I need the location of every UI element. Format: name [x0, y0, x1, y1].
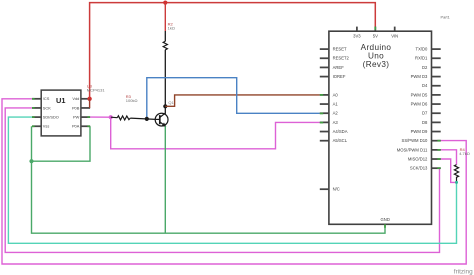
svg-text:TX/D0: TX/D0: [416, 47, 429, 52]
svg-text:MOSI/PWM D11: MOSI/PWM D11: [397, 147, 428, 152]
wire R2 to collector node: [164, 50, 166, 114]
svg-text:IOREF: IOREF: [333, 74, 346, 79]
svg-text:P0A: P0A: [72, 124, 80, 129]
wire end mark at PW: [87, 116, 90, 118]
wire emitter to GND rail: [164, 126, 166, 233]
wire end mark at 5V: [374, 27, 376, 30]
pin MISO/D12: [432, 158, 441, 160]
wire CS to D10: [2, 99, 466, 264]
svg-text:Q1: Q1: [168, 100, 174, 105]
pin Vss: [32, 125, 41, 127]
svg-text:GND: GND: [381, 217, 390, 222]
pin D8: [432, 121, 441, 123]
pin RESET2: [320, 57, 329, 59]
pin 5V: [374, 27, 376, 32]
svg-text:fritzing: fritzing: [454, 269, 473, 275]
junction dot Vdd: [87, 97, 91, 101]
svg-text:MCP4131: MCP4131: [87, 87, 106, 92]
svg-text:D8: D8: [422, 120, 428, 125]
svg-text:A1: A1: [333, 102, 339, 107]
svg-text:5V: 5V: [373, 34, 378, 39]
pin A5/SCL: [320, 140, 329, 142]
wire end mark at A2: [320, 112, 323, 114]
pin AREF: [320, 66, 329, 68]
svg-text:RESET: RESET: [333, 47, 347, 52]
svg-text:AREF: AREF: [333, 65, 345, 70]
svg-text:Part1: Part1: [441, 14, 450, 19]
wire blue base node to A2: [147, 78, 320, 119]
wire end mark at Vss: [32, 125, 35, 127]
pin !CS: [32, 98, 41, 100]
svg-text:D7: D7: [422, 111, 428, 116]
wire end mark at A0: [320, 94, 323, 96]
wire +5V red rail: [90, 3, 376, 99]
svg-text:A0: A0: [333, 92, 339, 97]
wire R2 top lead: [164, 31, 166, 41]
resistor R3: [117, 116, 130, 120]
wire end mark at !CS: [32, 98, 35, 100]
pin SCK/D13: [432, 167, 441, 169]
wire R3 to base: [130, 118, 155, 119]
pin TX/D0: [432, 48, 441, 50]
wire end mark at A3: [320, 122, 323, 124]
svg-text:VIN: VIN: [391, 34, 398, 39]
wire P0A branch: [32, 126, 91, 161]
svg-text:RESET2: RESET2: [333, 56, 350, 61]
svg-text:PW: PW: [73, 115, 80, 120]
pin A0: [320, 94, 329, 96]
wire end mark at GND: [384, 224, 386, 228]
pin A3: [320, 121, 329, 123]
pin D2: [432, 66, 441, 68]
svg-text:A3: A3: [333, 120, 339, 125]
junction dot rail to R2 branch: [163, 1, 167, 5]
wire SDI/SDO cyan to R4 node: [8, 117, 456, 243]
pin IOREF: [320, 76, 329, 78]
pin SS/PWM D10: [432, 140, 441, 142]
wire Vss P0A GND rail: [32, 126, 386, 233]
svg-text:!CS: !CS: [43, 96, 50, 101]
pin P0A: [81, 125, 90, 127]
svg-text:4.7kΩ: 4.7kΩ: [459, 151, 470, 156]
svg-text:PWM D5: PWM D5: [411, 92, 428, 97]
wire end mark at D13: [437, 167, 440, 169]
pin D7: [432, 112, 441, 114]
svg-text:3V3: 3V3: [353, 34, 361, 39]
svg-text:A5/SCL: A5/SCL: [333, 138, 348, 143]
pin D4: [432, 85, 441, 87]
pin Vdd: [81, 98, 90, 100]
resistor R2: [163, 41, 167, 50]
svg-text:D2: D2: [422, 65, 428, 70]
pin PWM D5: [432, 94, 441, 96]
svg-text:A4/SDA: A4/SDA: [333, 129, 348, 134]
pin SCK: [32, 107, 41, 109]
pin PWM D6: [432, 103, 441, 105]
pin MOSI/PWM D11: [432, 149, 441, 151]
wire end mark at D12: [437, 158, 440, 160]
Arduino Uno: [320, 27, 441, 225]
pin PW: [81, 116, 90, 118]
svg-text:PWM D3: PWM D3: [411, 74, 428, 79]
pin A1: [320, 103, 329, 105]
pin P0B: [81, 107, 90, 109]
pin N/C: [320, 188, 329, 190]
svg-text:SCK/D13: SCK/D13: [410, 166, 428, 171]
svg-text:MISO/D12: MISO/D12: [408, 156, 428, 161]
pin RX/D1: [432, 57, 441, 59]
wire PW node to A3: [111, 117, 320, 149]
wire end mark at D11: [437, 149, 440, 151]
wire end mark at SDI/SDO: [32, 116, 35, 118]
wire collector to A0: [165, 95, 319, 106]
svg-text:Vdd: Vdd: [72, 96, 79, 101]
pin SDI/SDO: [32, 116, 41, 118]
wire end mark at SCK: [32, 107, 35, 109]
pin RESET: [320, 48, 329, 50]
junction dot base node: [145, 117, 149, 121]
pin A2: [320, 112, 329, 114]
svg-text:PWM D9: PWM D9: [411, 129, 428, 134]
svg-text:A2: A2: [333, 111, 339, 116]
svg-text:D4: D4: [422, 83, 428, 88]
junction dot green: [29, 159, 33, 163]
svg-text:1kΩ: 1kΩ: [168, 26, 175, 31]
wire PW stub to node: [90, 116, 111, 118]
U1 MCP4131: [32, 90, 90, 136]
transistor Q1: [155, 113, 168, 127]
pin VIN: [394, 27, 396, 32]
pin PWM D3: [432, 76, 441, 78]
svg-text:PWM D6: PWM D6: [411, 102, 428, 107]
wire Vdd to P0B: [89, 99, 91, 108]
pin PWM D9: [432, 131, 441, 133]
node R4 bottom: [455, 181, 458, 184]
svg-text:(Rev3): (Rev3): [363, 60, 390, 69]
wire D12 to R4 bottom node: [440, 159, 457, 182]
svg-text:Vss: Vss: [43, 124, 50, 129]
svg-text:SCK: SCK: [43, 105, 51, 110]
wire end mark at P0A: [87, 125, 90, 127]
svg-text:SDI/SDO: SDI/SDO: [43, 115, 59, 120]
svg-text:U1: U1: [56, 96, 65, 105]
junction dot PW node: [109, 115, 113, 119]
svg-text:SS/PWM D10: SS/PWM D10: [402, 138, 428, 143]
wire D11 to R4: [440, 150, 457, 165]
pin 3V3: [356, 27, 358, 32]
wire SCK to D13: [5, 108, 441, 252]
wire end mark at D10: [437, 140, 440, 142]
wire red branch to R2: [164, 3, 166, 31]
junction dot collector node: [163, 104, 167, 108]
wire PW to R3: [111, 116, 118, 119]
svg-text:100kΩ: 100kΩ: [126, 98, 138, 103]
svg-text:P0B: P0B: [72, 105, 80, 110]
svg-text:RX/D1: RX/D1: [415, 56, 428, 61]
resistor R4: [454, 165, 458, 183]
svg-text:N/C: N/C: [333, 187, 340, 192]
pin A4/SDA: [320, 131, 329, 133]
